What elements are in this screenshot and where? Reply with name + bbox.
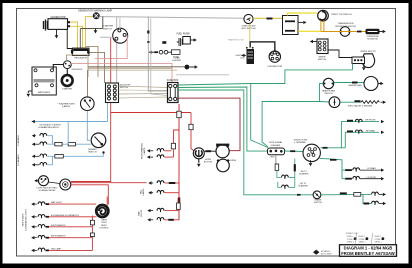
fuse box fuse 1: [169, 88, 171, 97]
wire yellow coil drop: [249, 24, 251, 49]
wire gray stub mid: [176, 74, 229, 76]
wire brown warning lamp branch: [80, 28, 103, 30]
wire wiper ground stub: [363, 64, 365, 68]
generator terminal F: [68, 25, 70, 27]
heater fan switch body: [323, 78, 333, 88]
dimmer switch body: [91, 133, 106, 148]
wire green heater branch: [320, 84, 324, 102]
lighting switch A detail: [41, 178, 43, 180]
svg-text:& DIMMER RELAY: & DIMMER RELAY: [39, 189, 57, 192]
wire yellow F to bundle: [70, 26, 83, 48]
turn switch terminal: [311, 151, 314, 154]
wire battery ground stub: [27, 91, 29, 93]
wire yellow bundle third: [85, 17, 87, 49]
lamp map1: [157, 208, 164, 210]
key switch terminal R2: [113, 89, 116, 92]
svg-text:LAMPS: LAMPS: [143, 147, 146, 154]
wire green brake lamps: [321, 193, 371, 195]
wire fuse row b: [168, 51, 172, 53]
coil terminal nubs: [246, 47, 248, 49]
key switch terminal L2: [108, 89, 111, 92]
logo mark: [313, 250, 319, 255]
svg-text:CIGAR: CIGAR: [173, 56, 180, 59]
turn signal flasher body: [268, 148, 285, 155]
beam resistor 3: [55, 155, 64, 159]
connector dash before brake switch: [297, 194, 301, 196]
wiper motor body: [362, 54, 375, 68]
key switch terminal L1: [108, 85, 111, 88]
svg-text:HORNS: HORNS: [229, 160, 237, 162]
svg-text:HEATER MOTOR: HEATER MOTOR: [228, 39, 244, 42]
svg-text:DISTRIBUTOR: DISTRIBUTOR: [267, 66, 282, 68]
inline fuse F3: [172, 50, 181, 55]
turn signal switch body: [303, 144, 320, 161]
ground wiper motor: [362, 67, 366, 70]
key switch terminal R4: [113, 97, 116, 100]
heater switch contact b: [332, 83, 334, 85]
interlock switch body: [340, 27, 350, 37]
arrow LF rear: [381, 168, 384, 171]
svg-text:RF REAR: RF REAR: [366, 129, 375, 132]
connector blob mid drop: [147, 31, 149, 34]
battery box: [32, 67, 56, 95]
starter motor M: [62, 75, 73, 86]
wire cigar lighter: [189, 66, 194, 68]
fuse row bead 1: [159, 50, 163, 54]
fuel pump body: [183, 37, 191, 45]
lighting switch body B: [60, 179, 71, 190]
svg-text:SOLENOID: SOLENOID: [367, 39, 378, 41]
svg-text:HEATER FAN: HEATER FAN: [322, 90, 335, 93]
wiper switch terminal L1: [318, 41, 321, 44]
wire LF front to arrow: [360, 178, 381, 180]
distributor body: [269, 51, 280, 62]
wire blue flasher drop: [86, 111, 88, 122]
wire maroon M1 to horn: [179, 98, 241, 151]
wire brown flasher drop: [87, 70, 89, 97]
wire red row3: [49, 226, 92, 228]
wire red row2: [49, 216, 97, 218]
svg-text:STARTER: STARTER: [103, 25, 113, 28]
fuse box terminal 3: [169, 97, 172, 100]
svg-text:FLASHER: FLASHER: [298, 185, 308, 188]
wire red rheostat vertical: [91, 216, 93, 251]
arrow license 1: [383, 193, 386, 196]
battery terminal 2: [51, 69, 54, 72]
connector dash floating: [162, 41, 166, 44]
lamp LF REAR: [353, 168, 360, 170]
arrow fuel pump: [194, 38, 197, 41]
svg-text:REGULATOR: REGULATOR: [74, 56, 87, 59]
connector dash LF rear: [345, 169, 352, 171]
legend divider 1: [356, 233, 357, 244]
connector dash license: [340, 192, 347, 194]
horn lower body: [217, 159, 230, 172]
svg-text:SIDE & DASH: SIDE & DASH: [22, 213, 25, 226]
turn switch terminal: [308, 148, 311, 151]
fuel sender resistor: [361, 101, 379, 104]
battery link band: [34, 79, 55, 82]
svg-text:(LAMPS): (LAMPS): [62, 105, 70, 108]
flasher unit needle: [85, 100, 91, 108]
svg-text:* FLASHER/TURN: * FLASHER/TURN: [57, 102, 75, 105]
lighting switch body A: [39, 176, 49, 186]
wire heater switch to fan: [334, 82, 364, 84]
wire tan diag 4: [119, 97, 168, 98]
starter solenoid SOL: [63, 61, 71, 69]
turn switch terminal: [314, 148, 317, 151]
connector dash RF front: [347, 120, 353, 122]
wire relay top out: [298, 21, 303, 23]
connector dash fuel: [355, 100, 361, 102]
dimmer terminal: [102, 151, 104, 153]
arrow heater fan: [380, 82, 383, 85]
wire gray mid drop 2: [151, 19, 168, 96]
flasher unit dot b: [89, 99, 91, 101]
wire green G2 to flasher: [178, 87, 270, 151]
relay box body: [283, 16, 299, 35]
legend group 2 symbol: [366, 237, 369, 240]
wire brown bus left leg: [87, 55, 89, 77]
wire red ignition feed down: [71, 38, 111, 182]
wire pink solenoid feed: [71, 63, 172, 84]
svg-text:HI BEAM INDICATOR: HI BEAM INDICATOR: [38, 126, 59, 129]
wire fuel sender out: [381, 101, 383, 103]
wire hi2 resistors: [47, 143, 91, 145]
horn lower terminals: [217, 159, 219, 161]
wire green C to gauge: [320, 101, 330, 104]
wire tan diag 2: [119, 89, 168, 92]
starter switch terminal b: [115, 37, 118, 40]
rheostat spiral: [99, 208, 106, 215]
wire generator ground drop: [56, 29, 58, 35]
wire green G1 fusebox to wiper feed: [178, 70, 353, 85]
throttle switch body: [318, 10, 329, 21]
wire brown control box to right: [90, 52, 105, 83]
interlock contact a: [340, 31, 342, 33]
key switch box body: [106, 83, 119, 103]
wiper switch terminal L3: [318, 48, 321, 51]
wire turn switch ground: [310, 160, 312, 163]
distributor terminal 1: [271, 53, 274, 56]
inline resistor R2: [90, 233, 94, 237]
inline fuse F6: [189, 124, 193, 129]
wire tail1 red: [165, 182, 180, 184]
arrow RF rear: [381, 131, 384, 134]
arrow parking2: [147, 155, 150, 158]
wire red horn feed 2: [191, 130, 194, 151]
svg-text:4 TERMINAL: 4 TERMINAL: [294, 141, 307, 144]
wire gray into starter switch 2: [119, 17, 121, 29]
svg-text:RF FRONT: RF FRONT: [365, 120, 376, 122]
connector dash row 3: [46, 226, 49, 228]
wire lo1 long: [47, 155, 103, 157]
tick mid drop: [147, 41, 150, 43]
fuel pump coil: [177, 38, 182, 46]
wire green wiper stub: [352, 64, 354, 70]
lamp license 1: [372, 192, 379, 194]
svg-text:SWITCH: SWITCH: [120, 87, 129, 89]
wire coil left arrow: [243, 54, 246, 56]
connector dash od: [357, 31, 362, 33]
arrow lo2: [32, 163, 35, 166]
beam resistor 2: [68, 142, 75, 146]
svg-text:-GRD: -GRD: [269, 157, 275, 159]
outer black frame right: [409, 0, 412, 268]
lamp tail2: [157, 190, 164, 192]
lamp RF REAR: [355, 130, 362, 132]
svg-text:LO BEAMS: LO BEAMS: [17, 154, 20, 166]
arrow parking1: [147, 149, 150, 152]
generator terminal D: [68, 21, 70, 23]
generator G1 body: [48, 19, 68, 30]
svg-text:SYMBOL KEY: SYMBOL KEY: [346, 233, 359, 235]
wire turn switch down: [294, 159, 296, 188]
svg-text:BUTTON: BUTTON: [204, 161, 213, 163]
connector dash row 2: [46, 216, 49, 218]
svg-text:GENERATOR WARNING LAMP: GENERATOR WARNING LAMP: [78, 10, 113, 13]
svg-text:ADVANCE: ADVANCE: [321, 250, 331, 253]
svg-text:FUSE BOX: FUSE BOX: [167, 80, 179, 82]
svg-text:TURN SIGNAL: TURN SIGNAL: [269, 141, 284, 144]
connector dash license2: [364, 203, 370, 205]
lamp dash row 3: [38, 225, 45, 227]
solenoid terminal b: [68, 65, 70, 67]
lamp RF FRONT: [355, 119, 362, 121]
wire red horizontal bus: [111, 112, 191, 114]
arrow tail2: [148, 191, 151, 194]
control box terminal band: [73, 49, 88, 51]
svg-text:GRND =: GRND =: [358, 241, 366, 243]
fuse row dash: [155, 51, 159, 53]
wiper switch terminal L2: [318, 45, 321, 48]
flasher terminal 2: [275, 150, 278, 153]
wire red main vertical: [178, 104, 180, 113]
wire wiper switch to motor: [328, 50, 352, 58]
wire pink starter switch drop: [95, 36, 127, 59]
wire red rheostat top feed: [106, 197, 108, 206]
outer black frame bottom: [0, 264, 412, 268]
svg-text:HEATER FAN: HEATER FAN: [349, 84, 362, 87]
svg-text:FROM BENTLEY A67S3AW: FROM BENTLEY A67S3AW: [341, 251, 395, 256]
svg-text:LF REAR: LF REAR: [367, 167, 376, 170]
svg-text:SWITCH: SWITCH: [324, 93, 333, 95]
flasher unit dot a: [84, 99, 86, 101]
svg-text:SWITCH: SWITCH: [318, 59, 327, 61]
arrow hazard row: [32, 120, 35, 123]
horn button contact: [195, 151, 202, 157]
wire brown bus 3: [88, 69, 177, 71]
cigar lighter symbol: [185, 65, 190, 70]
wire orange throttle drop a: [320, 21, 322, 32]
horn upper cap: [216, 144, 229, 146]
wire green LF rear row: [342, 169, 351, 171]
lamp license 2: [372, 201, 379, 203]
relay contact bottom: [285, 30, 295, 32]
wire gray into starter switch: [116, 17, 118, 29]
lamp dash row 5: [38, 248, 45, 250]
lamp lo1: [40, 154, 47, 156]
flasher terminal 3: [280, 150, 283, 153]
arrow dash row 3: [31, 225, 34, 228]
wire green G3 to brake switch: [178, 90, 313, 195]
ignition switch body: [244, 14, 253, 23]
wire green RF rear: [345, 132, 379, 148]
ignition switch key: [247, 18, 251, 21]
fuel gauge body: [329, 97, 340, 108]
connector dash ign relay: [267, 18, 273, 20]
svg-text:WIPER MOTOR: WIPER MOTOR: [360, 51, 376, 53]
svg-text:TRANSMISSION: TRANSMISSION: [338, 22, 354, 25]
connector dash heater: [352, 82, 358, 84]
starter switch terminal t: [118, 29, 121, 32]
wire yellow ign to relay: [253, 17, 282, 19]
wire red row5: [49, 249, 92, 251]
connector dash horn: [206, 150, 212, 152]
svg-text:BATTERIES: BATTERIES: [38, 91, 51, 94]
heater switch contact a: [324, 83, 326, 85]
brake switch body: [313, 191, 321, 199]
wire blue branch dimmer: [87, 122, 91, 141]
wire blue hazard row: [32, 121, 108, 123]
svg-text:ILLUMINATION LIGHTS: ILLUMINATION LIGHTS: [24, 209, 27, 231]
cable battery to solenoid: [53, 65, 64, 70]
wire tan diag 3: [119, 93, 168, 96]
inline fuse F9: [354, 193, 361, 197]
lamp lo2: [40, 163, 47, 165]
wire red vertical to parking: [178, 113, 180, 221]
wire brown bus 1: [88, 66, 185, 68]
wire red row4: [49, 237, 92, 239]
wire blue key drop: [107, 103, 109, 122]
arrow hi1: [32, 134, 35, 137]
wire lo2 to lo1: [47, 156, 52, 165]
arrow RF front: [381, 120, 384, 123]
svg-text:4W HAZARD FLASHER: 4W HAZARD FLASHER: [39, 123, 61, 126]
arrow tail1: [148, 181, 151, 184]
svg-text:GRND =: GRND =: [374, 241, 382, 243]
svg-text:FRONT/PARKING: FRONT/PARKING: [140, 142, 143, 159]
wire gray warning lamp feed: [99, 17, 244, 19]
wire od solenoid out: [380, 31, 383, 33]
inline fuse F4: [177, 111, 181, 118]
wire green C gauge feed: [262, 102, 319, 147]
wire generator to control box: [67, 29, 72, 48]
connector dash stub1: [323, 147, 328, 149]
wire green turn switch stub1: [320, 147, 345, 149]
svg-text:STARTER: STARTER: [62, 88, 72, 91]
control box body: [72, 48, 89, 55]
inline fuse F5: [171, 143, 175, 149]
wire green RF front: [341, 122, 379, 148]
wire switch A to B: [49, 182, 60, 184]
fuse row bead 2: [164, 50, 168, 54]
legend group 3 symbol: [382, 237, 385, 240]
battery terminal 1: [34, 69, 37, 72]
wire red map drop: [165, 210, 180, 220]
flasher unit body: [81, 97, 95, 111]
wiper switch terminal R1: [323, 41, 326, 44]
arrow map1: [147, 209, 150, 212]
wire parking2 red: [165, 156, 174, 158]
connector dash map2: [168, 219, 174, 221]
wire yellow to warning lamp: [86, 16, 94, 18]
lamp dash row 1: [38, 202, 45, 204]
inline fuse F8: [177, 203, 181, 210]
wire horn button to horn: [204, 150, 216, 152]
lamp dash row 2: [38, 215, 45, 217]
interlock contact b: [348, 31, 350, 33]
svg-text:THROTTLE SWITCH: THROTTLE SWITCH: [331, 14, 352, 16]
svg-text:SWITCH: SWITCH: [88, 152, 97, 154]
wiper switch terminal R2: [323, 45, 326, 48]
connector dash tail1: [169, 182, 176, 184]
overdrive solenoid body: [366, 29, 380, 34]
svg-text:SWITCH: SWITCH: [103, 28, 112, 30]
connector dash LF front: [345, 178, 352, 180]
distributor terminal 5: [276, 57, 279, 60]
inline fuse F7: [275, 164, 279, 170]
wire brown bus 2: [88, 67, 172, 69]
wire red horn feed: [190, 113, 192, 125]
lamp parking1: [157, 148, 164, 150]
wire tan diag 1: [119, 86, 168, 88]
distributor terminal 2: [274, 52, 277, 55]
wire brown solenoid top: [67, 55, 89, 61]
fuse box terminal 2: [174, 84, 177, 87]
wire lamp2 left stub: [278, 182, 281, 188]
wire hi1 to hi2: [47, 136, 52, 145]
wire horn button ground: [198, 159, 200, 163]
fuse box terminal 1: [169, 84, 172, 87]
wire dimmer to lo: [102, 154, 104, 157]
horn button body: [193, 148, 204, 159]
generator G1 pulley: [44, 20, 48, 31]
wire LF rear to arrow: [360, 169, 381, 171]
rheostat body: [96, 205, 108, 217]
wire red lighting long: [71, 182, 147, 184]
svg-text:COIL: COIL: [240, 58, 246, 60]
fuse box terminal 4: [174, 97, 177, 100]
wire red parking drop: [173, 149, 175, 157]
outer black frame left: [0, 0, 3, 268]
svg-text:GRND =: GRND =: [347, 241, 355, 243]
wire dark bundle line: [79, 29, 81, 49]
svg-text:LAMPS: LAMPS: [142, 188, 145, 195]
wire tail2 red: [165, 192, 180, 194]
svg-text:AUTO WIRE: AUTO WIRE: [321, 253, 332, 256]
control box end cap left: [71, 49, 73, 53]
arrow lo1: [32, 155, 35, 158]
wiper switch body: [317, 39, 328, 54]
arrow wiper switch feed: [310, 40, 313, 43]
wire yellow relay right: [298, 30, 321, 32]
wire brown control box upper: [86, 46, 98, 77]
key switch terminal R3: [113, 93, 116, 96]
svg-text:SWITCH: SWITCH: [314, 202, 322, 204]
wire fuse to lamp1: [277, 170, 281, 177]
lamp indicator 4W: [282, 175, 289, 177]
wire red branch left: [174, 130, 180, 143]
solenoid terminal a: [65, 63, 67, 65]
horn upper body: [216, 145, 229, 158]
arrow dash row 4: [31, 236, 34, 239]
arrow cigar lighter: [195, 65, 198, 68]
legend group 1 symbol: [354, 237, 357, 240]
wire yellow relay up: [288, 13, 318, 16]
wire gray mid drop: [148, 17, 167, 92]
wire fuel pump out: [190, 39, 193, 41]
